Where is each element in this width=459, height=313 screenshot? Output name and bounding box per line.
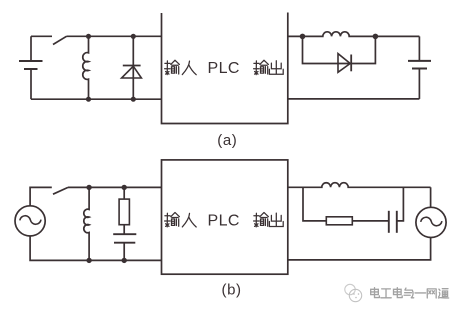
svg-text:PLC: PLC: [208, 212, 240, 229]
svg-text:(a): (a): [217, 132, 237, 149]
svg-text:(b): (b): [222, 281, 242, 298]
svg-text:PLC: PLC: [208, 60, 240, 77]
